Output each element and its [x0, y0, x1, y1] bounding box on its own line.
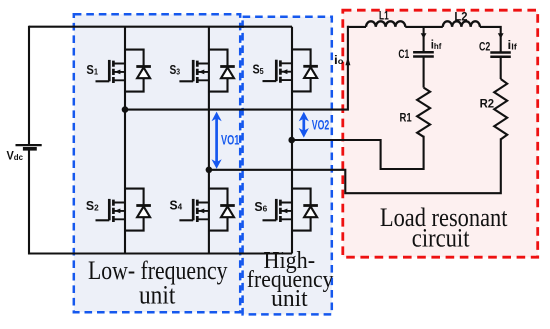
- left wire to battery: [28, 26, 30, 145]
- low-frequency unit dashed border: [74, 14, 240, 312]
- transistor S2 (MOSFET with antiparallel diode): [96, 189, 151, 231]
- load resonant circuit dashed box fill: [343, 10, 538, 257]
- leg 1 rail (S1/S2): [124, 27, 126, 254]
- resistor R1 zigzag: [417, 88, 430, 137]
- transistor S6 (MOSFET with antiparallel diode): [263, 189, 318, 231]
- transistor S3 (MOSFET with antiparallel diode): [179, 50, 234, 92]
- wire L2 to C2 branch: [480, 27, 501, 52]
- wire: leg1 midpoint output line to load (node A): [125, 26, 348, 110]
- low-frequency unit dashed box fill: [74, 14, 240, 312]
- VO1 measurement arrow (blue double arrow): [212, 112, 222, 169]
- transistor S4 (MOSFET with antiparallel diode): [179, 189, 234, 231]
- wire L1 to L2: [405, 26, 443, 28]
- svg-text:Vdc: Vdc: [7, 151, 24, 163]
- svg-text:unit: unit: [271, 286, 308, 312]
- inductor L1: [366, 21, 405, 27]
- junction dot leg1 midpoint: [122, 106, 129, 113]
- svg-text:VO1: VO1: [221, 132, 240, 148]
- svg-text:L2: L2: [454, 10, 468, 24]
- inductor L2: [443, 21, 480, 27]
- current io arrow on wire: [345, 57, 350, 66]
- junction dot leg2 midpoint: [206, 167, 213, 174]
- svg-text:C2: C2: [479, 39, 491, 53]
- svg-text:R1: R1: [400, 111, 413, 125]
- wire: leg2 midpoint return line (node C): [209, 138, 501, 193]
- resistor R2 zigzag: [494, 79, 507, 139]
- wire: leg3 midpoint output (node B): [292, 136, 424, 169]
- high-frequency unit dashed box fill: [243, 17, 332, 315]
- load resonant circuit dashed border: [343, 10, 538, 257]
- svg-text:unit: unit: [139, 281, 176, 310]
- bottom DC bus wire: [29, 252, 292, 254]
- current ihf arrow on wire: [421, 33, 427, 38]
- high-frequency unit dashed border: [243, 17, 332, 315]
- capacitor C1: [413, 51, 434, 54]
- svg-text:VO2: VO2: [312, 117, 330, 133]
- svg-text:circuit: circuit: [412, 224, 470, 253]
- wire C2 to R2: [500, 57, 502, 79]
- svg-text:C1: C1: [398, 47, 409, 61]
- leg 3 rail (S5/S6): [291, 27, 293, 254]
- transistor S1 (MOSFET with antiparallel diode): [96, 50, 151, 92]
- wire C1 to R1: [423, 57, 425, 88]
- C1 branch wire from top: [423, 27, 425, 52]
- svg-text:L1: L1: [379, 9, 389, 23]
- wire battery to bottom bus: [28, 149, 30, 255]
- current ilf arrow on wire: [498, 33, 504, 38]
- leg 2 rail (S3/S4): [208, 27, 210, 254]
- capacitor C2: [490, 51, 511, 54]
- svg-text:R2: R2: [480, 96, 495, 110]
- junction dot leg3 midpoint: [288, 137, 295, 144]
- load top wire left segment: [348, 26, 366, 28]
- transistor S5 (MOSFET with antiparallel diode): [263, 49, 318, 91]
- battery Vdc plates: [16, 144, 42, 146]
- top DC bus wire: [29, 26, 292, 28]
- VO2 measurement arrow (blue double arrow): [299, 112, 309, 138]
